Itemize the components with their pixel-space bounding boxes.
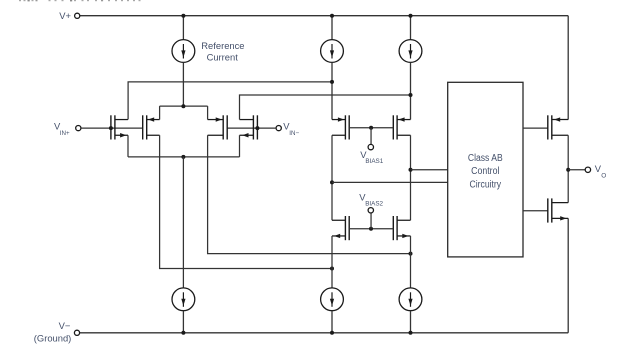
wire VBIAS1 stub [370, 128, 372, 145]
wire class AB box to Q10 gate [523, 210, 548, 212]
svg-text:O: O [601, 172, 606, 179]
wire Q7 source down to I5 [331, 236, 333, 288]
wire VBIAS1 gate line [349, 127, 393, 129]
node left column to class AB [330, 180, 334, 184]
svg-text:V+: V+ [59, 10, 71, 21]
wire right edge: Q10 source down to V- rail [567, 218, 569, 332]
wire Q9 source to Q10 drain (output column) [567, 135, 569, 202]
node right column to class AB [409, 168, 413, 172]
wire Q1 source down to tail node [127, 135, 129, 157]
current source I5 (bottom middle) [321, 288, 344, 333]
svg-text:Circuitry: Circuitry [470, 179, 502, 190]
wire right edge: V+ rail down to Q9 drain [567, 16, 569, 120]
transistor Q6 (VBIAS1 cascode right) [393, 115, 410, 139]
node VBIAS2 gates [369, 227, 373, 231]
wire Q8 source down to I6 [410, 236, 412, 288]
terminal VBIAS2 [359, 191, 383, 213]
wire output node to VO terminal [568, 169, 585, 171]
terminal V- (Ground) [34, 320, 80, 344]
wire Q6/Q3 column between cascodes [410, 135, 412, 220]
terminal VIN+ [54, 121, 81, 137]
transistor Q1 (input, outer left) [111, 115, 128, 139]
svg-text:Current: Current [207, 52, 239, 63]
wire Q4 drain up-right to node at I3 branch [240, 95, 411, 120]
wire Q3 source down and right to I6 branch [208, 135, 411, 253]
wire VBIAS2 stub [370, 213, 372, 229]
svg-text:(Ground): (Ground) [34, 333, 72, 344]
wire tent top between Q2 and Q3 drains [160, 105, 208, 107]
cropped text remnants at top edge [19, 0, 141, 1]
wire V+ top rail [80, 15, 568, 17]
node: top rail junctions [181, 14, 412, 18]
transistor Q8 (VBIAS2 right) [393, 216, 410, 240]
svg-text:BIAS1: BIAS1 [365, 158, 383, 165]
wire VIN- to gates of Q3,Q4 [227, 127, 276, 129]
block U1 Class AB Control Circuitry [448, 82, 523, 257]
node Q3 source to I6 branch [409, 252, 413, 256]
wire tail of outer pair [128, 156, 240, 158]
wire VBIAS2 gate line [349, 228, 393, 230]
node Q4 drain to I3 branch [409, 93, 413, 97]
svg-text:IN+: IN+ [60, 130, 70, 137]
transistor Q5 (VBIAS1 cascode left) [332, 115, 349, 139]
node tent top to reference current [181, 104, 185, 108]
wire Q4 source down to tail node [239, 135, 241, 157]
wire Q5/Q2 column between cascodes [331, 135, 333, 220]
current source I2 (top middle) [321, 16, 344, 120]
node Q1 drain to I2 branch [330, 80, 334, 84]
transistor Q7 (VBIAS2 left) [332, 216, 349, 240]
wire V- bottom rail [80, 332, 569, 334]
transistor Q9 (output top) [548, 115, 568, 139]
wire Q1 drain up-right to node at I2 branch [128, 82, 332, 120]
transistor Q2 (input, inner left) [143, 115, 160, 139]
svg-text:Control: Control [471, 166, 499, 177]
wire VIN+ to gates of Q1,Q2 [81, 127, 143, 129]
terminal V+ [59, 10, 80, 21]
svg-text:Class AB: Class AB [468, 153, 503, 164]
wire right column to class AB box [411, 169, 448, 171]
svg-text:BIAS2: BIAS2 [365, 201, 383, 208]
wire class AB box to Q9 gate [523, 127, 548, 129]
transistor Q10 (output bottom) [548, 198, 568, 222]
wire tail node down to I4 [182, 157, 184, 288]
svg-text:V−: V− [59, 320, 71, 331]
terminal VIN- [276, 121, 299, 137]
current source I1 (reference) [172, 16, 195, 107]
terminal VBIAS1 [360, 144, 384, 165]
wire Q2 source down and right to I5 branch [160, 135, 332, 268]
node Q2 source to I5 branch [330, 267, 334, 271]
wire Q3 drain up to tent top [207, 106, 209, 119]
label Reference Current [201, 40, 244, 63]
current source I3 (top right) [399, 16, 422, 120]
node tail to I4 [181, 155, 185, 159]
svg-text:IN−: IN− [289, 130, 299, 137]
svg-text:Reference: Reference [201, 40, 244, 51]
node: bottom rail junctions [181, 331, 412, 335]
node gate Q1 [109, 126, 113, 130]
wire left column to class AB box [332, 181, 448, 183]
wire Q2 drain up to tent top [159, 106, 161, 119]
transistor Q3 (input, inner right) [208, 115, 228, 139]
current source I4 (bottom left) [172, 288, 195, 333]
node output [566, 168, 570, 172]
terminal VO [585, 163, 606, 180]
node VBIAS1 gates [369, 126, 373, 130]
current source I6 (bottom right) [399, 288, 422, 333]
node gate Q4 [255, 126, 259, 130]
transistor Q4 (input, outer right) [240, 115, 258, 139]
